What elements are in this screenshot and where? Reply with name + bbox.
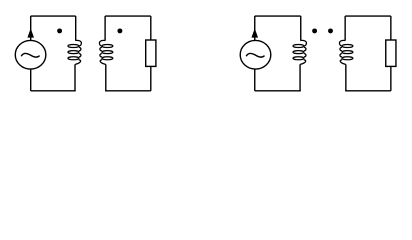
- wire a- primary coil bottom lead: [74, 65, 76, 91]
- wire a- source left vertical lower: [30, 69, 32, 91]
- arrow b- source direction: [251, 28, 258, 37]
- AC source a-Vs: [15, 40, 46, 69]
- inductor a-L2 (secondary): [99, 40, 113, 65]
- wire b- load loop bottom: [345, 90, 391, 92]
- wire b- primary coil top lead: [300, 16, 302, 41]
- wire a- resistor bottom lead: [150, 66, 152, 90]
- polarity dot b-dot1: [312, 28, 317, 33]
- wire b- load loop top: [345, 15, 391, 17]
- AC source b-Vs: [240, 40, 271, 69]
- wire a- primary coil top lead: [75, 16, 77, 41]
- wire a- source left vertical upper: [30, 16, 32, 41]
- resistor b-R (load): [386, 40, 396, 66]
- wire b- source loop bottom: [255, 90, 301, 92]
- wire b- primary coil bottom lead: [299, 65, 301, 91]
- wire b- resistor top lead: [390, 16, 392, 40]
- wire a- load loop top: [105, 15, 151, 17]
- polarity dot a-dot2: [117, 28, 122, 33]
- wire a- source loop top: [31, 15, 76, 17]
- inductor b-L2 (secondary): [339, 40, 353, 65]
- arrow a- source direction: [27, 28, 34, 37]
- wire b- secondary coil bottom lead: [345, 65, 347, 91]
- polarity dot b-dot2: [328, 28, 333, 33]
- inductor a-L1 (primary): [68, 40, 82, 65]
- wire a- load loop bottom: [105, 90, 151, 92]
- wire a- secondary coil top lead: [104, 16, 106, 41]
- resistor a-R (load): [146, 40, 156, 66]
- wire b- source left vertical upper: [254, 16, 256, 41]
- wire a- resistor top lead: [150, 16, 152, 40]
- wire b- source loop top: [255, 15, 301, 17]
- inductor b-L1 (primary): [293, 40, 307, 65]
- polarity dot a-dot1: [57, 28, 62, 33]
- wire b- source left vertical lower: [254, 69, 256, 91]
- wire a- source loop bottom: [31, 90, 76, 92]
- wire a- secondary coil bottom lead: [105, 65, 107, 91]
- wire b- resistor bottom lead: [390, 66, 392, 90]
- wire b- secondary coil top lead: [344, 16, 346, 41]
